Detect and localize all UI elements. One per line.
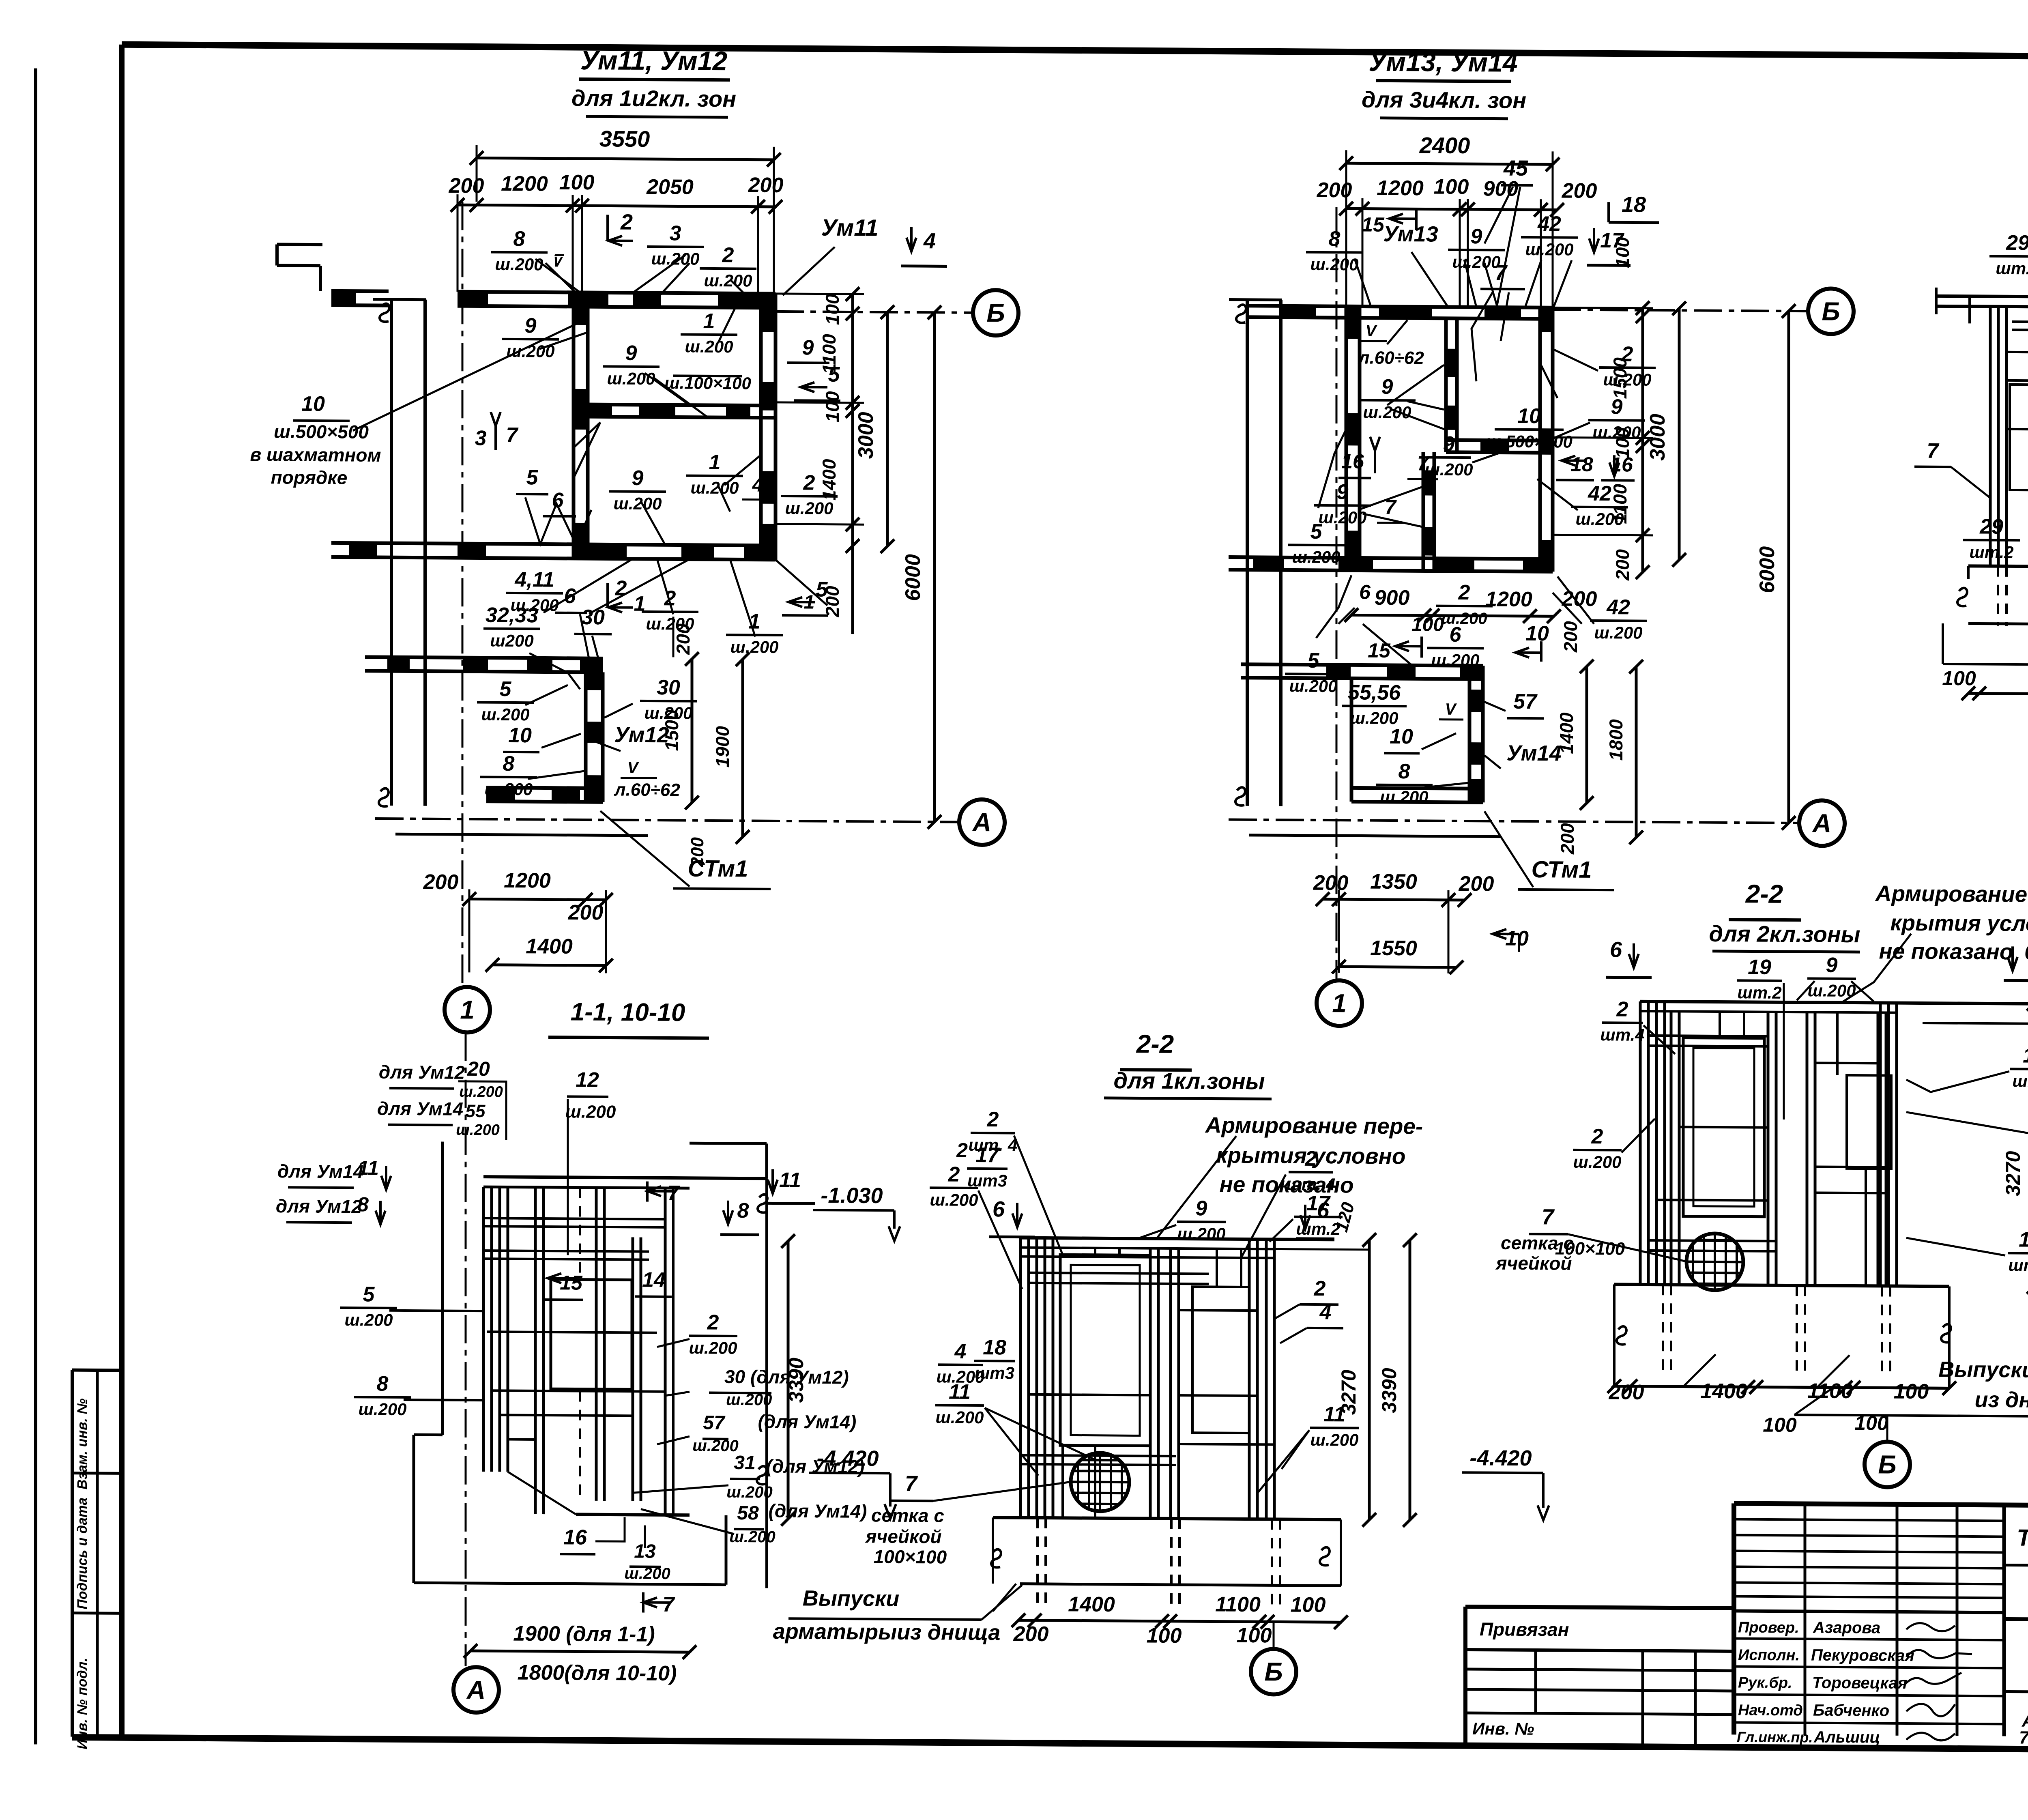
svg-text:30 (для Ум12): 30 (для Ум12) xyxy=(724,1366,849,1388)
svg-text:9: 9 xyxy=(525,314,537,337)
svg-text:200: 200 xyxy=(1459,872,1494,896)
svg-text:1200: 1200 xyxy=(501,172,548,196)
svg-text:17: 17 xyxy=(975,1143,1000,1167)
svg-text:42: 42 xyxy=(1537,212,1561,236)
title block left verticals xyxy=(1804,1504,1807,1735)
section 2-2/1kl right dims xyxy=(1368,1240,1371,1520)
svg-text:ш.200: ш.200 xyxy=(935,1407,984,1427)
svg-text:Ум12: Ум12 xyxy=(614,723,669,748)
svg-text:9: 9 xyxy=(1337,480,1349,504)
svg-text:6: 6 xyxy=(993,1197,1005,1221)
svg-text:ш.200: ш.200 xyxy=(692,1437,738,1455)
view B axis-1 dash-dot xyxy=(1336,207,1338,980)
svg-text:V: V xyxy=(1366,322,1378,340)
svg-text:2: 2 xyxy=(1616,997,1628,1021)
svg-text:100: 100 xyxy=(1147,1624,1182,1648)
svg-text:8: 8 xyxy=(1329,227,1341,251)
svg-text:Ум14: Ум14 xyxy=(1506,741,1561,766)
privyazan table frame xyxy=(1465,1607,1734,1608)
view A plan bottom wall xyxy=(331,543,776,546)
svg-text:ш.200: ш.200 xyxy=(1441,610,1487,628)
svg-text:Выпуски: Выпуски xyxy=(803,1586,900,1611)
svg-text:ш.200: ш.200 xyxy=(726,1483,772,1502)
svg-text:1100: 1100 xyxy=(1807,1379,1853,1403)
svg-text:100: 100 xyxy=(1291,1593,1326,1617)
svg-text:100: 100 xyxy=(1763,1414,1797,1437)
svg-text:1400: 1400 xyxy=(1700,1380,1747,1403)
svg-text:ш.200: ш.200 xyxy=(1424,460,1473,479)
svg-text:10: 10 xyxy=(508,724,532,747)
svg-text:ш.200: ш.200 xyxy=(565,1102,616,1122)
svg-text:(для Ум14): (для Ум14) xyxy=(758,1411,857,1432)
svg-text:17: 17 xyxy=(2023,1044,2028,1068)
svg-text:55: 55 xyxy=(466,1101,486,1121)
svg-text:2: 2 xyxy=(722,243,734,267)
svg-text:2: 2 xyxy=(803,471,815,494)
svg-text:шт3: шт3 xyxy=(975,1363,1014,1383)
svg-text:1: 1 xyxy=(709,451,721,474)
svg-text:СТм1: СТм1 xyxy=(688,855,748,882)
view A sub-plan right wall xyxy=(584,672,588,802)
svg-text:для Ум12: для Ум12 xyxy=(276,1195,362,1217)
svg-text:10: 10 xyxy=(1525,622,1549,645)
svg-text:45: 45 xyxy=(1503,156,1528,180)
section 2-2/1kl bottom xyxy=(993,1517,1341,1519)
svg-text:12: 12 xyxy=(576,1068,599,1092)
section 3-3 bottom dims xyxy=(1968,693,2028,695)
section 2-2/1kl left window xyxy=(1060,1255,1150,1446)
svg-text:л.60÷62: л.60÷62 xyxy=(614,780,680,800)
svg-text:2050: 2050 xyxy=(646,175,694,199)
svg-text:2-2: 2-2 xyxy=(1136,1029,1174,1059)
svg-text:4: 4 xyxy=(752,475,763,496)
svg-text:Провер.: Провер. xyxy=(1738,1619,1799,1637)
svg-text:14: 14 xyxy=(642,1268,666,1292)
svg-text:V: V xyxy=(1445,700,1457,718)
svg-text:(для Ум14): (для Ум14) xyxy=(769,1500,867,1521)
svg-text:8: 8 xyxy=(513,227,525,251)
svg-text:10: 10 xyxy=(301,392,325,416)
svg-text:из днища: из днища xyxy=(1974,1388,2028,1413)
svg-text:А: А xyxy=(466,1675,486,1704)
svg-text:ш.200: ш.200 xyxy=(607,369,655,388)
svg-text:30: 30 xyxy=(581,606,605,629)
svg-text:1800(для 10-10): 1800(для 10-10) xyxy=(518,1661,677,1685)
section 2-2/2kl axis circle B xyxy=(1886,1416,1888,1442)
svg-text:200: 200 xyxy=(1560,621,1581,653)
svg-text:9: 9 xyxy=(1826,954,1838,977)
view B extra leaders xyxy=(1355,259,1371,306)
svg-text:17: 17 xyxy=(1306,1192,1331,1215)
svg-text:ш.200: ш.200 xyxy=(685,337,733,357)
section 3-3 top slab xyxy=(1936,296,2028,299)
svg-text:крытия условно: крытия условно xyxy=(1891,910,2028,937)
svg-text:6000: 6000 xyxy=(901,554,925,601)
svg-text:3390: 3390 xyxy=(1378,1368,1401,1413)
section 3-3 wall verticals xyxy=(1989,307,1992,566)
section 1-1 extra ties xyxy=(483,1226,665,1227)
svg-text:2: 2 xyxy=(987,1108,999,1131)
view A dim 3000 xyxy=(886,312,889,546)
svg-text:Гл.инж.пр.: Гл.инж.пр. xyxy=(1737,1728,1813,1745)
svg-text:шт.2: шт.2 xyxy=(1969,542,2013,562)
svg-text:ш.200: ш.200 xyxy=(651,249,699,269)
svg-text:3: 3 xyxy=(670,221,681,245)
svg-text:ячейкой: ячейкой xyxy=(1495,1253,1572,1274)
svg-text:Армирование пере-: Армирование пере- xyxy=(1205,1112,1423,1139)
view A zigzag leaders xyxy=(525,497,591,544)
svg-text:ш.200: ш.200 xyxy=(484,780,533,799)
svg-text:2: 2 xyxy=(1621,342,1633,366)
svg-text:шт.2: шт.2 xyxy=(2012,1071,2028,1091)
svg-text:200: 200 xyxy=(748,174,784,198)
svg-text:7: 7 xyxy=(1495,260,1508,285)
section 1-1 right dim lines xyxy=(765,1178,768,1588)
svg-text:1900: 1900 xyxy=(712,726,733,767)
svg-text:ш.200: ш.200 xyxy=(785,499,833,518)
svg-text:100: 100 xyxy=(822,391,843,422)
svg-text:ш.200: ш.200 xyxy=(644,703,692,723)
svg-text:для Ум12: для Ум12 xyxy=(379,1061,465,1083)
section 1-1 window rect xyxy=(551,1279,632,1389)
title block staff rows xyxy=(1734,1638,2004,1640)
section 2-2/2kl top slab xyxy=(1640,1001,2028,1004)
svg-text:5: 5 xyxy=(500,677,512,701)
svg-text:Подпись и дата: Подпись и дата xyxy=(75,1498,90,1609)
section 2-2/2kl bottom dims xyxy=(1614,1386,1949,1388)
view B sub-plan dims 200/1350/200 1550 xyxy=(1323,899,1465,900)
svg-text:СТм1: СТм1 xyxy=(1532,856,1592,883)
svg-text:Бабченко: Бабченко xyxy=(1813,1702,1889,1720)
sheet left edge line xyxy=(34,69,37,1745)
svg-text:для Ум14: для Ум14 xyxy=(377,1098,463,1120)
view A right dim chain 100/1100/100/1400/200 xyxy=(851,294,854,634)
svg-text:42: 42 xyxy=(1588,482,1611,505)
svg-text:57: 57 xyxy=(703,1412,726,1433)
svg-text:арматырыиз днища: арматырыиз днища xyxy=(773,1619,1001,1645)
view A axis B line and circle xyxy=(776,312,972,313)
svg-text:1900 (для 1-1): 1900 (для 1-1) xyxy=(513,1622,655,1646)
view A plan top wall xyxy=(458,292,776,294)
view B plan top wall xyxy=(1246,306,1553,308)
svg-text:в шахматном: в шахматном xyxy=(250,444,381,466)
svg-text:200: 200 xyxy=(1609,1380,1644,1404)
svg-text:ш.200: ш.200 xyxy=(1452,252,1500,272)
svg-text:Ум11, Ум12: Ум11, Ум12 xyxy=(580,45,728,76)
section 2-2/2kl bottom xyxy=(1614,1284,1949,1286)
svg-text:ш.200: ш.200 xyxy=(1594,623,1642,642)
section 1-1 rebar ties xyxy=(483,1218,665,1219)
svg-text:18: 18 xyxy=(1622,192,1646,217)
svg-text:Выпуски арматуры: Выпуски арматуры xyxy=(1938,1357,2028,1383)
svg-text:ш.200: ш.200 xyxy=(459,1083,503,1101)
section 1-1 axis circle A xyxy=(453,1667,499,1713)
svg-text:ш.200: ш.200 xyxy=(690,478,739,498)
view B inner shaft walls xyxy=(1444,318,1448,452)
svg-text:для Ум14: для Ум14 xyxy=(277,1160,363,1182)
section 2-2/2kl right panel xyxy=(1806,1012,1809,1285)
view A dim 6000 xyxy=(933,312,936,822)
svg-text:ш.200: ш.200 xyxy=(1310,1430,1358,1450)
svg-text:ш.200: ш.200 xyxy=(1318,508,1366,527)
svg-text:200: 200 xyxy=(1013,1622,1049,1646)
view B sub-plan Um14 walls xyxy=(1241,664,1483,666)
svg-text:9: 9 xyxy=(1443,432,1455,456)
svg-text:5: 5 xyxy=(363,1283,375,1306)
view A plan middle wall xyxy=(574,404,776,406)
svg-text:900: 900 xyxy=(1375,586,1410,610)
svg-text:ш.200: ш.200 xyxy=(1292,547,1340,567)
svg-text:ш.200: ш.200 xyxy=(1575,509,1624,529)
svg-text:200: 200 xyxy=(1612,549,1633,580)
svg-text:9: 9 xyxy=(802,336,814,359)
svg-text:1400: 1400 xyxy=(1556,712,1577,754)
svg-text:4: 4 xyxy=(1319,1300,1332,1324)
section 2-2/1kl bottom dims xyxy=(1018,1620,1341,1622)
svg-text:18: 18 xyxy=(2019,1228,2028,1251)
svg-text:900: 900 xyxy=(1483,177,1519,201)
svg-text:1200: 1200 xyxy=(1485,587,1532,611)
title block right part lines xyxy=(2004,1565,2028,1568)
svg-text:ш.200: ш.200 xyxy=(689,1338,737,1358)
svg-text:сетка с: сетка с xyxy=(871,1504,944,1526)
svg-text:ш.200: ш.200 xyxy=(1363,403,1411,422)
svg-text:Ум11: Ум11 xyxy=(821,215,879,241)
svg-text:19: 19 xyxy=(1748,955,1771,979)
svg-text:11: 11 xyxy=(1323,1403,1345,1426)
title block outer frame xyxy=(1734,1503,2028,1508)
svg-text:шт. 4: шт. 4 xyxy=(1287,1175,1336,1194)
svg-text:2: 2 xyxy=(1458,581,1470,604)
view B dim 6000 xyxy=(1787,311,1790,823)
svg-text:7: 7 xyxy=(663,1593,675,1616)
svg-text:V: V xyxy=(627,759,640,777)
svg-text:Исполн.: Исполн. xyxy=(1738,1647,1800,1664)
svg-text:8: 8 xyxy=(377,1372,389,1396)
svg-text:11: 11 xyxy=(358,1156,379,1179)
svg-text:1-1, 10-10: 1-1, 10-10 xyxy=(571,998,685,1027)
svg-text:ш.500×500: ш.500×500 xyxy=(274,421,369,442)
view B plan bottom wall xyxy=(1229,557,1553,559)
svg-text:ш.200: ш.200 xyxy=(613,494,662,514)
section 2-2/1kl extra ties xyxy=(1029,1395,1150,1395)
svg-text:ш.200: ш.200 xyxy=(704,271,752,290)
svg-text:4: 4 xyxy=(923,229,936,253)
svg-text:1: 1 xyxy=(804,591,815,613)
svg-text:шт.2: шт.2 xyxy=(1737,983,1781,1002)
svg-text:ш.200: ш.200 xyxy=(1807,981,1856,1000)
svg-text:Ум13, Ум14: Ум13, Ум14 xyxy=(1368,47,1517,77)
svg-text:7-7, 10-10.: 7-7, 10-10. xyxy=(2019,1728,2028,1748)
svg-text:Инв. № подл.: Инв. № подл. xyxy=(75,1658,90,1749)
svg-text:1200: 1200 xyxy=(1377,176,1424,200)
svg-text:11: 11 xyxy=(949,1380,971,1404)
svg-text:1400: 1400 xyxy=(1068,1592,1115,1616)
svg-text:5: 5 xyxy=(526,466,539,489)
view A left column wall xyxy=(390,299,393,806)
svg-text:10: 10 xyxy=(1390,725,1413,748)
svg-text:2: 2 xyxy=(1314,1277,1326,1300)
svg-text:6: 6 xyxy=(1610,937,1622,962)
svg-text:1: 1 xyxy=(703,309,715,333)
svg-text:Азарова: Азарова xyxy=(1813,1619,1880,1637)
svg-text:7: 7 xyxy=(1927,439,1940,463)
svg-text:ш.200: ш.200 xyxy=(1310,255,1358,274)
view A axis-1 dash-dot line xyxy=(462,202,464,987)
svg-text:9: 9 xyxy=(1196,1197,1207,1220)
section 2-2/1kl marker 6 right xyxy=(1304,1205,1306,1229)
svg-text:Б: Б xyxy=(986,298,1005,327)
view B marker 17 down xyxy=(1593,228,1595,252)
svg-text:ш.200: ш.200 xyxy=(481,705,529,724)
svg-text:ш.200: ш.200 xyxy=(456,1122,500,1139)
svg-text:8: 8 xyxy=(1399,760,1410,783)
section 2-2/1kl axis circle B xyxy=(1273,1622,1275,1648)
svg-text:Инв. №: Инв. № xyxy=(1472,1719,1534,1738)
svg-text:ш.200: ш.200 xyxy=(730,637,778,657)
svg-text:-4.420: -4.420 xyxy=(1469,1446,1532,1470)
view B plan right wall xyxy=(1538,307,1542,572)
section 3-3 extra ties xyxy=(2012,322,2028,323)
svg-text:200: 200 xyxy=(449,174,484,198)
section 2-2/1kl left panel walls xyxy=(1019,1238,1022,1518)
svg-text:ш.200: ш.200 xyxy=(1380,787,1428,807)
svg-text:200: 200 xyxy=(1317,178,1352,202)
view A subplan right dims 1500 1900 xyxy=(691,659,694,803)
svg-text:2: 2 xyxy=(948,1163,960,1186)
svg-text:9: 9 xyxy=(625,342,637,365)
svg-text:6: 6 xyxy=(2024,940,2028,965)
view A extra leaders xyxy=(535,259,580,292)
svg-text:3: 3 xyxy=(475,426,487,450)
svg-text:3550: 3550 xyxy=(599,126,650,152)
svg-text:18: 18 xyxy=(983,1336,1006,1359)
svg-text:15: 15 xyxy=(1368,639,1391,662)
section 2-2/2kl extra ties xyxy=(1656,1200,1768,1201)
svg-text:55,56: 55,56 xyxy=(1348,681,1401,705)
svg-text:ш.200: ш.200 xyxy=(358,1399,406,1419)
svg-text:9: 9 xyxy=(632,466,644,490)
svg-text:100: 100 xyxy=(559,171,595,195)
view A sub-plan dims 200/1200/200 and 1400 xyxy=(469,899,606,900)
svg-text:20: 20 xyxy=(467,1057,490,1080)
svg-text:200: 200 xyxy=(672,623,694,655)
svg-text:ш.200: ш.200 xyxy=(729,1528,775,1546)
view B axis circle 1 xyxy=(1317,980,1362,1026)
svg-text:ш.200: ш.200 xyxy=(506,342,554,361)
svg-text:8: 8 xyxy=(737,1199,749,1223)
svg-text:1400: 1400 xyxy=(819,459,840,501)
svg-text:Б: Б xyxy=(1878,1450,1896,1479)
view A sub-plan bottom wall xyxy=(486,788,603,789)
view A marker 4 down xyxy=(910,227,913,251)
svg-text:2-2: 2-2 xyxy=(1745,879,1783,909)
svg-text:для 1кл.зоны: для 1кл.зоны xyxy=(1114,1068,1265,1094)
svg-text:7: 7 xyxy=(668,1182,680,1205)
svg-text:Альшиц: Альшиц xyxy=(1813,1728,1880,1747)
svg-text:58: 58 xyxy=(737,1502,759,1524)
svg-text:100: 100 xyxy=(1894,1380,1929,1404)
svg-text:10: 10 xyxy=(1505,927,1529,950)
svg-text:(для Ум12): (для Ум12) xyxy=(766,1455,865,1477)
svg-text:200: 200 xyxy=(423,870,459,894)
section 2-2/1kl ties xyxy=(1029,1273,1209,1274)
svg-text:1350: 1350 xyxy=(1370,870,1417,894)
title block signatures xyxy=(1906,1623,1955,1631)
svg-text:7: 7 xyxy=(506,423,519,447)
svg-text:ш.200: ш.200 xyxy=(930,1190,978,1210)
svg-text:л.60÷62: л.60÷62 xyxy=(1358,348,1424,368)
svg-text:ш.200: ш.200 xyxy=(726,1391,772,1409)
svg-text:16: 16 xyxy=(563,1526,587,1549)
svg-text:4: 4 xyxy=(954,1340,967,1363)
svg-text:ячейкой: ячейкой xyxy=(864,1526,941,1547)
view A axis A line and circle xyxy=(375,819,958,822)
svg-text:ш.200: ш.200 xyxy=(1525,240,1573,259)
svg-text:1200: 1200 xyxy=(504,869,551,893)
svg-text:100: 100 xyxy=(1942,667,1976,690)
svg-text:1550: 1550 xyxy=(1370,937,1417,960)
svg-text:шт.2: шт.2 xyxy=(1996,259,2028,278)
svg-text:⊽: ⊽ xyxy=(550,252,564,270)
svg-text:2: 2 xyxy=(1305,1147,1317,1171)
section 2-2/1kl right window xyxy=(1192,1287,1249,1433)
svg-text:15: 15 xyxy=(1362,213,1385,236)
svg-text:3000: 3000 xyxy=(854,412,878,459)
svg-text:100: 100 xyxy=(1434,175,1469,199)
svg-text:100: 100 xyxy=(822,294,843,325)
svg-text:ш.200: ш.200 xyxy=(624,1564,670,1583)
view B dim 3000 xyxy=(1678,308,1681,560)
svg-text:для 2кл.зоны: для 2кл.зоны xyxy=(1709,921,1860,947)
svg-text:6: 6 xyxy=(564,584,576,608)
view B left column wall xyxy=(1246,300,1249,806)
section 2-2/1kl top slab xyxy=(1020,1238,1334,1240)
svg-text:11: 11 xyxy=(779,1169,801,1192)
section 3-3 base lines xyxy=(1968,566,2028,567)
view A axis circle 1 xyxy=(445,987,490,1033)
svg-text:1800: 1800 xyxy=(1605,719,1626,761)
svg-text:17: 17 xyxy=(1600,229,1624,252)
view B right dim chain 100/1500/100/1100 xyxy=(1641,308,1644,572)
section 1-1 axis line xyxy=(465,1033,467,1666)
svg-text:7: 7 xyxy=(1417,452,1429,475)
svg-text:порядке: порядке xyxy=(271,466,348,488)
binding strip table xyxy=(72,1370,122,1750)
svg-text:ш.200: ш.200 xyxy=(1573,1152,1621,1172)
view A sub-plan Um12 top wall xyxy=(365,657,603,659)
svg-text:200: 200 xyxy=(1562,179,1597,203)
svg-text:5: 5 xyxy=(1310,520,1323,544)
svg-text:2: 2 xyxy=(1591,1125,1603,1148)
svg-text:шт.4: шт.4 xyxy=(1600,1025,1644,1044)
svg-text:А: А xyxy=(1812,808,1831,838)
section 2-2/2kl left panel xyxy=(1639,1001,1642,1285)
view B axis A line and circle xyxy=(1229,820,1798,823)
svg-text:6: 6 xyxy=(1450,623,1462,647)
svg-text:Б: Б xyxy=(1822,297,1840,326)
section 1-1 top slab xyxy=(483,1177,767,1178)
svg-text:Рук.бр.: Рук.бр. xyxy=(1738,1674,1792,1692)
svg-text:5: 5 xyxy=(1308,649,1320,673)
svg-text:Ум13: Ум13 xyxy=(1383,222,1438,247)
svg-text:29: 29 xyxy=(2006,231,2028,255)
svg-text:Привязан: Привязан xyxy=(1480,1618,1569,1640)
svg-text:7: 7 xyxy=(1385,496,1397,518)
svg-text:32,33: 32,33 xyxy=(486,604,538,627)
svg-text:31: 31 xyxy=(734,1452,755,1474)
svg-text:ш.200: ш.200 xyxy=(495,255,543,274)
